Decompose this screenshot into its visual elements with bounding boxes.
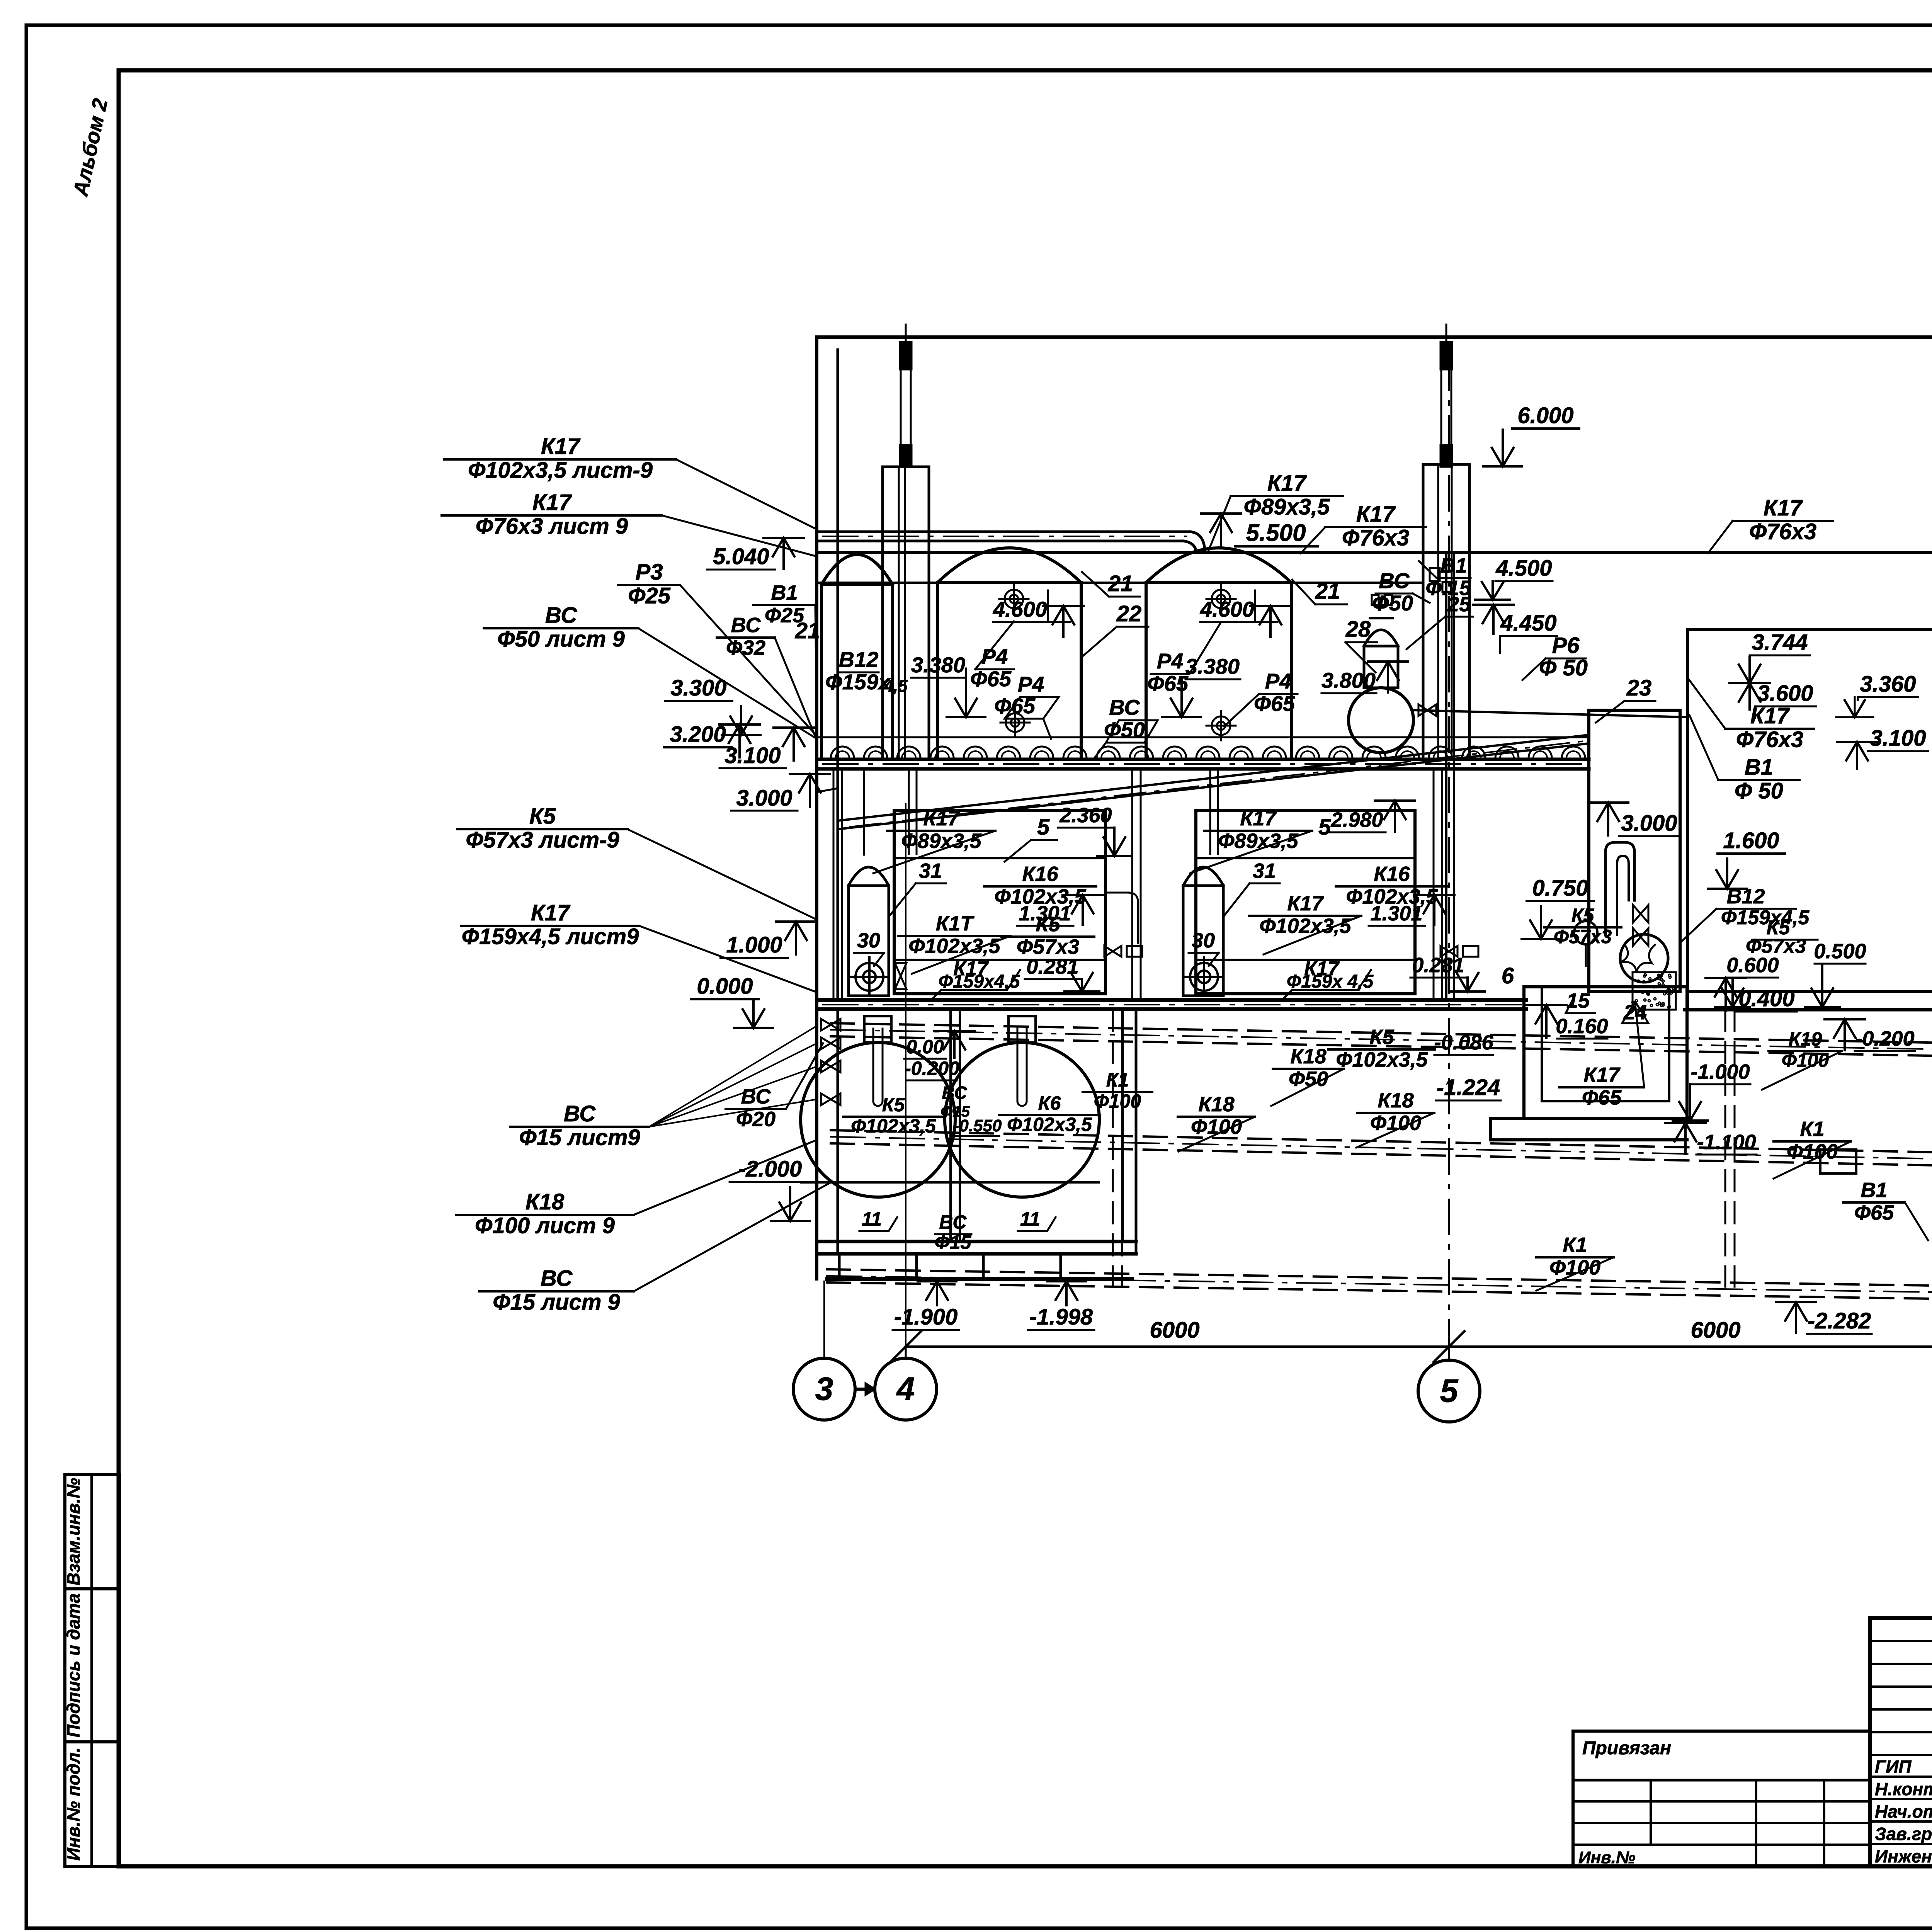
svg-text:25: 25 <box>1447 593 1471 616</box>
svg-text:3.200: 3.200 <box>670 722 726 747</box>
svg-text:3.380: 3.380 <box>911 653 965 677</box>
svg-text:0.00: 0.00 <box>906 1036 944 1058</box>
svg-text:30: 30 <box>1192 929 1215 952</box>
svg-text:3.600: 3.600 <box>1757 681 1813 706</box>
svg-text:Ф159х4,5 лист9: Ф159х4,5 лист9 <box>462 924 639 949</box>
svg-text:Ф57х3 лист-9: Ф57х3 лист-9 <box>466 828 619 853</box>
svg-text:3.000: 3.000 <box>1621 811 1677 836</box>
svg-text:-1.998: -1.998 <box>1029 1304 1093 1330</box>
svg-text:Инжен.: Инжен. <box>1875 1846 1932 1866</box>
svg-text:Ф25: Ф25 <box>765 604 804 627</box>
svg-text:Ф15 лист 9: Ф15 лист 9 <box>493 1290 620 1315</box>
svg-text:Ф65: Ф65 <box>970 667 1012 691</box>
svg-text:11: 11 <box>862 1208 882 1230</box>
svg-text:2.980: 2.980 <box>1330 808 1383 832</box>
svg-text:Ф20: Ф20 <box>736 1107 776 1131</box>
svg-text:Ф65: Ф65 <box>1147 671 1189 696</box>
svg-text:Инв.№: Инв.№ <box>1578 1848 1635 1867</box>
svg-text:Ф102х3,5: Ф102х3,5 <box>851 1115 936 1137</box>
svg-text:К17: К17 <box>532 490 572 515</box>
svg-text:3.100: 3.100 <box>724 743 781 768</box>
svg-text:Зав.гр.: Зав.гр. <box>1875 1824 1932 1844</box>
svg-text:Ф89х3,5: Ф89х3,5 <box>1244 495 1330 520</box>
svg-text:4,5: 4,5 <box>883 677 908 696</box>
svg-text:31: 31 <box>1253 859 1276 883</box>
svg-text:5: 5 <box>1037 815 1050 840</box>
svg-text:-0.200: -0.200 <box>1855 1027 1914 1050</box>
svg-text:К17: К17 <box>541 434 581 459</box>
svg-text:К1: К1 <box>1800 1117 1824 1141</box>
svg-text:Ф76х3: Ф76х3 <box>1736 727 1803 752</box>
svg-text:2.360: 2.360 <box>1059 804 1112 827</box>
svg-text:Ф76х3: Ф76х3 <box>1342 526 1409 551</box>
svg-text:Ф25: Ф25 <box>628 583 671 609</box>
svg-text:Ф102х3,5: Ф102х3,5 <box>1007 1114 1092 1135</box>
svg-text:Ф65: Ф65 <box>1254 691 1295 716</box>
svg-text:11: 11 <box>1020 1208 1040 1230</box>
svg-text:Р4: Р4 <box>1265 669 1292 693</box>
svg-text:0.750: 0.750 <box>1532 876 1588 901</box>
svg-text:Ф100: Ф100 <box>1549 1256 1600 1279</box>
svg-text:0.000: 0.000 <box>697 974 753 999</box>
svg-text:Ф159х: Ф159х <box>825 670 891 694</box>
svg-text:ВС: ВС <box>942 1083 967 1103</box>
svg-text:К1: К1 <box>1563 1233 1587 1257</box>
svg-text:4.500: 4.500 <box>1495 556 1552 581</box>
svg-text:1.000: 1.000 <box>726 932 782 957</box>
svg-text:К17: К17 <box>531 900 571 925</box>
svg-text:Ф 50: Ф 50 <box>1735 779 1783 804</box>
svg-text:-1.100: -1.100 <box>1697 1131 1756 1154</box>
svg-text:К17: К17 <box>1583 1063 1621 1087</box>
svg-text:К5: К5 <box>882 1094 905 1116</box>
svg-text:К18: К18 <box>526 1189 565 1214</box>
svg-text:Ф102х3,5: Ф102х3,5 <box>1336 1048 1428 1071</box>
svg-text:-1.224: -1.224 <box>1437 1075 1500 1100</box>
svg-text:Подпись и дата: Подпись и дата <box>63 1594 83 1738</box>
svg-text:В12: В12 <box>839 647 879 672</box>
svg-text:К17: К17 <box>1287 892 1324 915</box>
svg-text:3.300: 3.300 <box>670 675 726 701</box>
svg-text:К16: К16 <box>1022 862 1058 886</box>
svg-text:4.450: 4.450 <box>1500 611 1556 636</box>
svg-text:3.100: 3.100 <box>1870 726 1926 751</box>
svg-text:Привязан: Привязан <box>1582 1738 1671 1759</box>
svg-text:4: 4 <box>896 1371 915 1407</box>
svg-text:-1.900: -1.900 <box>894 1304 957 1330</box>
svg-text:ВС: ВС <box>1379 568 1410 593</box>
svg-text:К6: К6 <box>1038 1092 1061 1114</box>
svg-text:0.281: 0.281 <box>1026 955 1078 978</box>
svg-text:ВС: ВС <box>545 603 577 628</box>
svg-text:6000: 6000 <box>1150 1318 1199 1343</box>
svg-text:-0.086: -0.086 <box>1434 1031 1493 1054</box>
svg-text:К16: К16 <box>1374 862 1410 886</box>
svg-text:Ф50 лист 9: Ф50 лист 9 <box>497 627 625 652</box>
svg-text:4.600: 4.600 <box>993 597 1047 621</box>
svg-text:-1.000: -1.000 <box>1690 1060 1750 1083</box>
svg-text:Ф159х 4,5: Ф159х 4,5 <box>1287 971 1374 992</box>
svg-text:5.500: 5.500 <box>1246 520 1306 546</box>
svg-text:В1: В1 <box>1440 554 1467 577</box>
svg-text:3: 3 <box>815 1371 833 1407</box>
svg-text:Взам.инв.№: Взам.инв.№ <box>63 1478 83 1586</box>
svg-text:6: 6 <box>1502 963 1514 988</box>
svg-text:Ф102х3,5: Ф102х3,5 <box>908 934 1000 957</box>
svg-text:Ф76х3 лист 9: Ф76х3 лист 9 <box>476 514 628 539</box>
svg-text:Ф57х3: Ф57х3 <box>1554 926 1612 947</box>
svg-text:ВС: ВС <box>731 614 761 637</box>
svg-text:Р4: Р4 <box>1157 649 1184 673</box>
svg-text:Инв.№ подл.: Инв.№ подл. <box>63 1748 83 1861</box>
svg-text:15: 15 <box>1566 989 1590 1012</box>
svg-text:К17: К17 <box>923 807 960 830</box>
svg-text:Ф159х4,5: Ф159х4,5 <box>939 971 1020 992</box>
svg-text:Р4: Р4 <box>1018 672 1044 696</box>
svg-text:3.800: 3.800 <box>1321 668 1376 692</box>
svg-text:-0.550: -0.550 <box>954 1116 1002 1135</box>
svg-text:21: 21 <box>1108 571 1133 596</box>
svg-text:3.744: 3.744 <box>1752 630 1808 655</box>
svg-text:Ф100: Ф100 <box>1094 1090 1141 1112</box>
svg-text:Ф32: Ф32 <box>726 636 765 659</box>
svg-text:Ф50: Ф50 <box>1372 591 1413 615</box>
svg-text:К19: К19 <box>1789 1028 1822 1050</box>
svg-text:ВС: ВС <box>939 1211 967 1233</box>
svg-text:23: 23 <box>1626 675 1652 701</box>
svg-text:В1: В1 <box>1861 1179 1887 1202</box>
svg-text:Ф65: Ф65 <box>1582 1086 1622 1109</box>
svg-text:К17: К17 <box>1356 502 1396 527</box>
svg-text:ВС: ВС <box>541 1266 573 1291</box>
svg-text:К17: К17 <box>1267 471 1307 496</box>
svg-text:К5: К5 <box>1571 905 1595 926</box>
svg-text:-0.200: -0.200 <box>905 1058 959 1079</box>
svg-text:21: 21 <box>1315 579 1340 604</box>
svg-text:3.360: 3.360 <box>1860 672 1916 697</box>
svg-text:0.160: 0.160 <box>1556 1015 1608 1038</box>
svg-text:Нач.отд.: Нач.отд. <box>1875 1801 1932 1821</box>
svg-text:Ф100 лист 9: Ф100 лист 9 <box>475 1213 615 1238</box>
svg-text:Ф 50: Ф 50 <box>1539 655 1588 680</box>
svg-text:22: 22 <box>1116 601 1142 626</box>
svg-text:Ф15 лист9: Ф15 лист9 <box>519 1125 640 1150</box>
svg-text:К18: К18 <box>1378 1089 1413 1112</box>
svg-text:Ф102х3,5 лист-9: Ф102х3,5 лист-9 <box>468 458 653 483</box>
svg-text:В1: В1 <box>1745 755 1773 780</box>
svg-text:К18: К18 <box>1198 1093 1234 1116</box>
svg-text:0.500: 0.500 <box>1814 940 1866 963</box>
svg-text:Ф65: Ф65 <box>1854 1201 1894 1224</box>
svg-text:ВС: ВС <box>741 1085 771 1108</box>
svg-text:Р3: Р3 <box>636 560 663 585</box>
svg-text:28: 28 <box>1345 617 1371 642</box>
svg-text:К5: К5 <box>1036 913 1060 936</box>
svg-text:К5: К5 <box>1369 1026 1394 1049</box>
svg-text:Ф159х4,5: Ф159х4,5 <box>1721 906 1810 929</box>
svg-text:5.040: 5.040 <box>713 544 769 569</box>
svg-text:1.301: 1.301 <box>1370 902 1422 925</box>
svg-text:К1Т: К1Т <box>936 912 975 935</box>
svg-text:В12: В12 <box>1726 885 1765 908</box>
svg-text:К5: К5 <box>529 804 556 829</box>
svg-text:31: 31 <box>919 859 942 883</box>
svg-text:4.600: 4.600 <box>1200 597 1254 621</box>
svg-text:К18: К18 <box>1290 1045 1326 1068</box>
svg-text:ВС: ВС <box>564 1101 596 1126</box>
svg-text:В1: В1 <box>771 581 798 604</box>
svg-text:Р6: Р6 <box>1552 633 1580 658</box>
svg-text:6000: 6000 <box>1690 1318 1740 1343</box>
svg-text:ГИП: ГИП <box>1875 1757 1912 1777</box>
svg-text:К17: К17 <box>1764 495 1803 520</box>
svg-text:ВС: ВС <box>1109 695 1140 719</box>
svg-text:1.600: 1.600 <box>1723 828 1779 853</box>
svg-text:Ф76х3: Ф76х3 <box>1749 519 1816 544</box>
svg-text:Н.контр.: Н.контр. <box>1875 1779 1932 1799</box>
svg-text:6.000: 6.000 <box>1517 403 1573 428</box>
svg-text:0.600: 0.600 <box>1726 954 1779 977</box>
svg-text:30: 30 <box>857 929 880 952</box>
svg-text:5: 5 <box>1318 815 1331 840</box>
svg-text:-2.282: -2.282 <box>1808 1308 1871 1333</box>
svg-text:К17: К17 <box>1240 807 1277 830</box>
svg-text:0.400: 0.400 <box>1738 986 1794 1011</box>
svg-text:3.000: 3.000 <box>736 786 792 811</box>
svg-text:5: 5 <box>1440 1372 1459 1409</box>
svg-text:К17: К17 <box>1750 703 1790 728</box>
svg-text:К1: К1 <box>1106 1069 1129 1091</box>
